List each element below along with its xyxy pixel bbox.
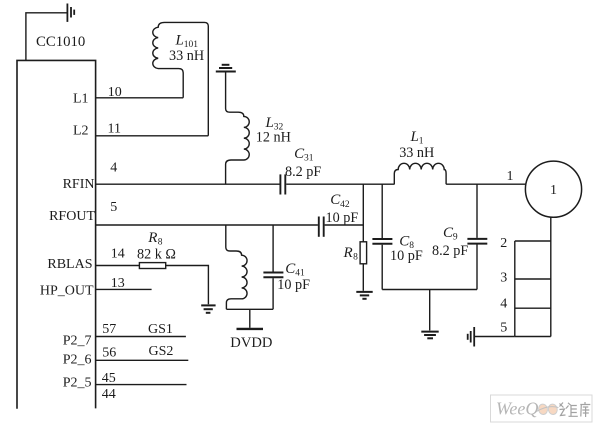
svg-text:1: 1 [507, 169, 514, 184]
value 10 pF (C42) [326, 210, 359, 226]
svg-text:82 k Ω: 82 k Ω [137, 247, 176, 263]
pin label P2_7 [63, 334, 92, 349]
net label GS1 [148, 322, 173, 337]
wire: pin 10 (L1) to L101 bottom [96, 97, 184, 99]
svg-text:8: 8 [353, 252, 358, 262]
pin label P2_5 [63, 375, 92, 390]
svg-text:56: 56 [102, 345, 116, 360]
wire: connector bottom to ground G6 [475, 336, 515, 338]
pin number 10 [108, 85, 122, 100]
antenna circle label 1 [550, 183, 557, 198]
resistor R8 (82 k) body [139, 263, 165, 269]
capacitor C31 (series, on RFIN line) [280, 174, 285, 194]
DVDD bias coil (vertical, bumps right) hanging from RFOUT line [226, 225, 247, 309]
svg-text:10 pF: 10 pF [390, 248, 423, 264]
wire: RFIN line left segment (pin 4 to C31) [96, 183, 280, 185]
pin number 56 [102, 345, 116, 360]
label DVDD [230, 335, 272, 351]
svg-text:4: 4 [500, 297, 507, 312]
value 8.2 pF (C31) [285, 164, 321, 180]
watermark text 维库 (approximated strokes) [560, 402, 591, 417]
pin number 57 [102, 322, 116, 337]
antenna A1 (circle) [525, 161, 581, 217]
svg-text:9: 9 [453, 233, 458, 243]
svg-text:10 pF: 10 pF [277, 277, 310, 293]
svg-text:CC1010: CC1010 [36, 34, 85, 50]
capacitor C42 (series, on RFOUT line) [319, 217, 324, 237]
svg-text:HP_OUT: HP_OUT [40, 283, 94, 298]
pin number 1 (antenna) [507, 169, 514, 184]
svg-text:5: 5 [500, 320, 507, 335]
svg-text:8.2 pF: 8.2 pF [432, 243, 468, 259]
svg-text:31: 31 [304, 153, 314, 163]
wire: HP_OUT stub [96, 288, 152, 290]
wire: rail to ground G5 [429, 290, 431, 331]
svg-text:L2: L2 [73, 124, 89, 139]
svg-text:RFOUT: RFOUT [49, 209, 95, 224]
pin number 44 [102, 387, 116, 402]
capacitor C9 branch (shunt, right of L1) [467, 184, 487, 289]
svg-text:44: 44 [102, 387, 116, 402]
DVDD supply symbol (stem + bar) [237, 309, 264, 329]
svg-text:12 nH: 12 nH [256, 130, 291, 146]
wire: pin 57 (GS1) [96, 336, 186, 338]
pin number 11 [108, 121, 121, 136]
inductor L32 (vertical coil, bumps right) with stem from G2 down to RFIN line [226, 73, 250, 185]
wire: RFOUT line (pin 5 to C42) [96, 224, 318, 226]
connector pin label 2 [500, 236, 507, 251]
ground G5 (below pi-filter rail) [421, 332, 438, 339]
connector pin label 3 [500, 271, 507, 286]
svg-text:11: 11 [108, 121, 121, 136]
label C31 [294, 146, 314, 164]
connector pin label 4 [500, 297, 507, 312]
value 33 nH (L101) [169, 48, 204, 64]
svg-text:3: 3 [500, 271, 507, 286]
svg-text:P2_5: P2_5 [63, 375, 92, 390]
value 12 nH (L32) [256, 130, 291, 146]
wire: R8b to ground G4 [362, 264, 364, 291]
watermark WeeQoo box [491, 395, 593, 422]
ground G6 (bottom-right, sideways left-pointing) [468, 327, 475, 347]
pin number 13 [111, 276, 125, 291]
pin label P2_6 [63, 353, 92, 368]
wire: bottom rail of DVDD cell [226, 308, 273, 310]
pin label HP_OUT [40, 283, 94, 298]
svg-text:R: R [147, 230, 157, 246]
connector J1 (3 stacked boxes) [515, 241, 551, 337]
svg-text:5: 5 [110, 200, 117, 215]
wire: RFIN line right segment (L1 to antenna) [446, 183, 525, 185]
svg-text:45: 45 [102, 371, 116, 386]
wire: antenna down to connector [550, 217, 552, 337]
ground G1 (top-left, sideways right-pointing) [67, 4, 74, 22]
wire: R8 to ground G3 [166, 266, 209, 305]
pin label RFIN [63, 177, 95, 192]
value 82 k Ohm [137, 247, 176, 263]
label C8 [399, 234, 414, 252]
wire: pin 45 [96, 384, 187, 386]
svg-text:RFIN: RFIN [63, 177, 95, 192]
svg-text:14: 14 [111, 247, 125, 262]
label L1 [410, 129, 424, 147]
svg-text:L: L [410, 129, 419, 145]
label C9 [443, 225, 458, 243]
svg-text:R: R [343, 245, 353, 261]
IC label CC1010 [36, 34, 85, 50]
svg-text:GS2: GS2 [149, 344, 174, 359]
svg-text:DVDD: DVDD [230, 335, 272, 351]
value 10 pF (C41) [277, 277, 310, 293]
wire: bottom rail C8 to C9 [382, 289, 477, 291]
value 8.2 pF (C9) [432, 243, 468, 259]
label C42 [330, 192, 350, 210]
label L101 [175, 32, 199, 50]
svg-text:P2_7: P2_7 [63, 334, 92, 349]
net label GS2 [149, 344, 174, 359]
wire: C42 right plate to node A [325, 224, 364, 226]
inductor L1 (horizontal coil, bumps up, in series on RFIN line) [394, 163, 446, 184]
pin label RBLAS [47, 257, 92, 272]
svg-text:8.2 pF: 8.2 pF [285, 164, 321, 180]
label L32 [265, 115, 284, 133]
label R8 (shunt resistor) [343, 245, 359, 263]
pin label L2 [73, 124, 89, 139]
connector pin label 5 [500, 320, 507, 335]
wire: RFIN line mid segment (C31 to L1 left riser) [286, 183, 394, 185]
svg-text:1: 1 [550, 183, 557, 198]
resistor R8b (shunt) body [360, 242, 367, 264]
svg-text:WeeQ: WeeQ [496, 399, 538, 419]
svg-text:RBLAS: RBLAS [47, 257, 92, 272]
svg-text:33 nH: 33 nH [399, 145, 434, 161]
svg-text:42: 42 [340, 200, 350, 210]
svg-text:L1: L1 [73, 92, 89, 107]
svg-text:33 nH: 33 nH [169, 48, 204, 64]
value 10 pF (C8) [390, 248, 423, 264]
wire: chip top to ground G1 [26, 13, 67, 61]
svg-text:57: 57 [102, 322, 116, 337]
svg-text:L: L [175, 32, 184, 48]
wire: pin 11 (L2) to L101 top [96, 135, 209, 137]
ground G4 (below R8b) [356, 292, 372, 299]
pin number 5 [110, 200, 117, 215]
value 33 nH (L1) [399, 145, 434, 161]
svg-text:2: 2 [500, 236, 507, 251]
pin number 4 [110, 160, 117, 175]
capacitor C41 (shunt, right of coil) [263, 225, 283, 309]
IC U1 CC1010 body (open-bottom rectangle) [17, 60, 96, 408]
pin label L1 [73, 92, 89, 107]
svg-text:GS1: GS1 [148, 322, 173, 337]
watermark text WeeQoo [496, 399, 559, 419]
svg-text:4: 4 [110, 160, 117, 175]
wire: RBLAS pin to R8 [96, 265, 140, 267]
svg-text:P2_6: P2_6 [63, 353, 92, 368]
wire: pin 56 (GS2) [96, 359, 189, 361]
node A vertical: RFIN line down through RFOUT node to R8b [362, 184, 364, 242]
ground G3 (below R8 82k) [201, 305, 215, 312]
svg-text:10 pF: 10 pF [326, 210, 359, 226]
pin label RFOUT [49, 209, 95, 224]
capacitor C8 branch (shunt, left of L1) [372, 184, 392, 289]
ground G2 (above L32, pointing up) [216, 65, 236, 72]
label C41 [285, 261, 305, 279]
pin number 45 [102, 371, 116, 386]
label R8 (82 k resistor) [147, 230, 163, 248]
pin number 14 [111, 247, 125, 262]
inductor L101 (vertical coil, bumps left) with connection wires [153, 22, 209, 135]
